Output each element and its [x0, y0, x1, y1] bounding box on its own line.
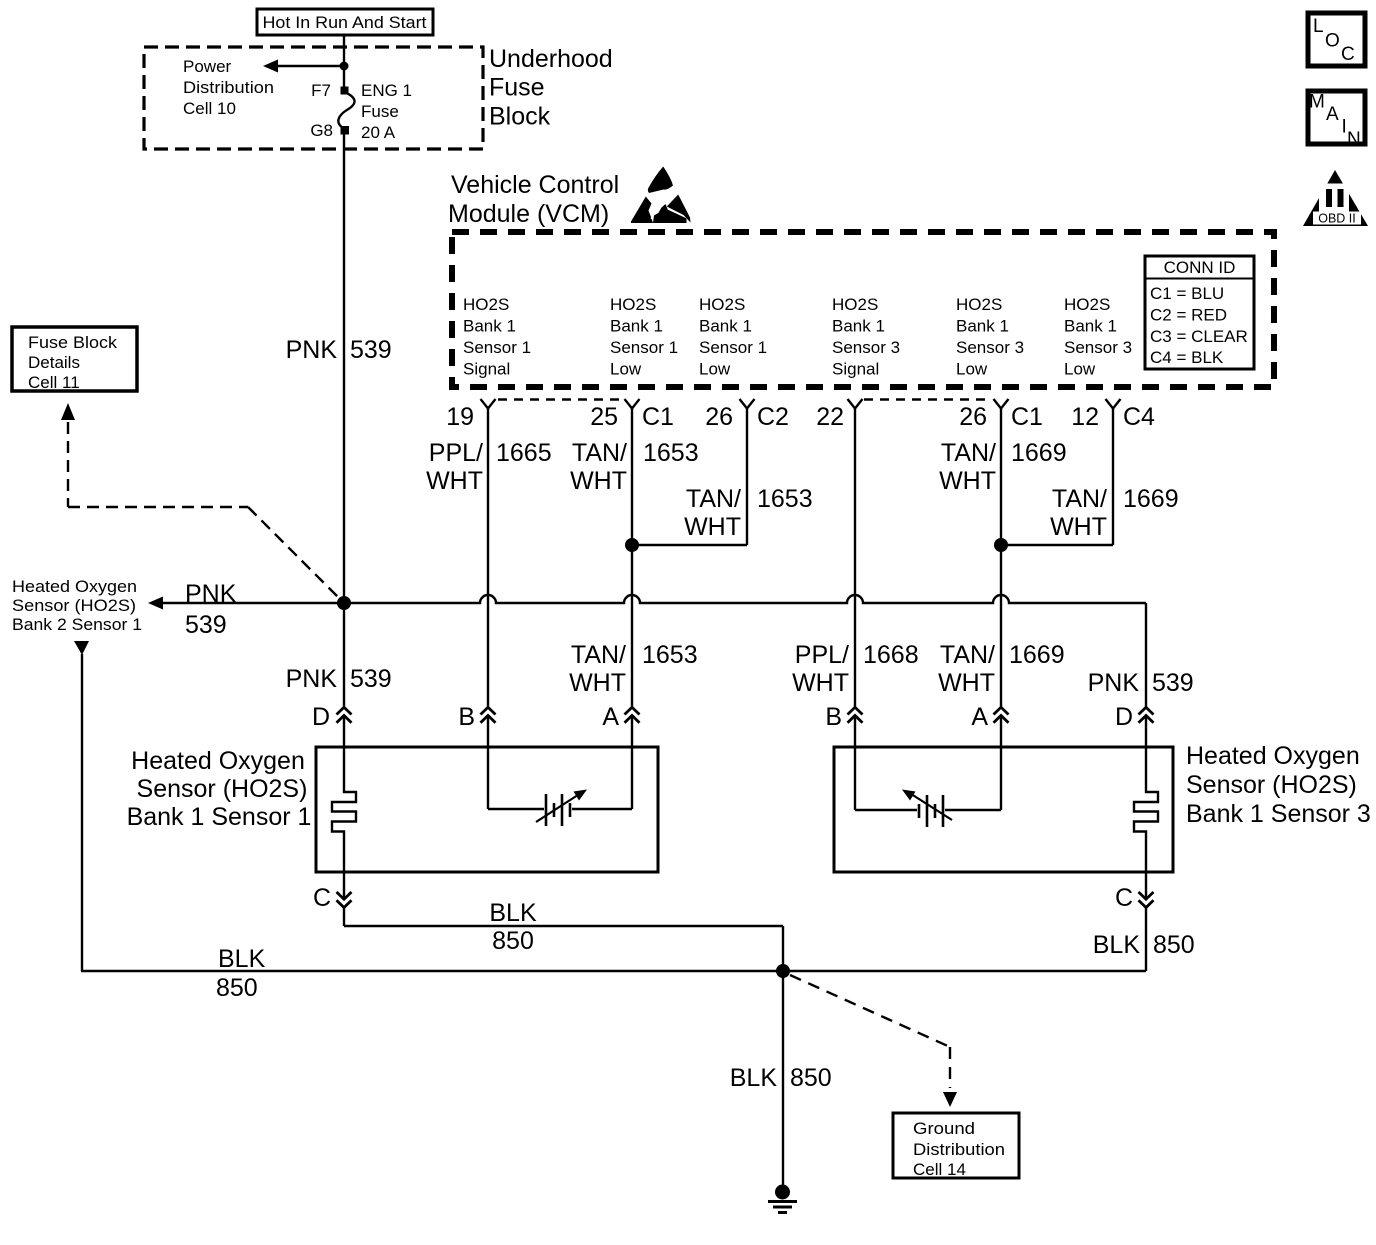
dashed reference arrow to Ground Distribution: [790, 975, 957, 1107]
label Heated Oxygen Sensor (HO2S) Bank 1 Sensor 1: [127, 747, 312, 831]
svg-text:A: A: [602, 703, 619, 731]
terminal G8: [341, 126, 350, 135]
sensing element sensor3 (variable): [855, 747, 1001, 827]
svg-text:Bank 1: Bank 1: [956, 317, 1009, 336]
svg-text:WHT: WHT: [1050, 513, 1107, 541]
svg-text:C1: C1: [1011, 403, 1043, 431]
svg-text:HO2S: HO2S: [1064, 295, 1110, 314]
svg-text:Sensor 3: Sensor 3: [832, 338, 900, 357]
svg-text:26: 26: [959, 403, 987, 431]
connector pin A symbol: [994, 707, 1009, 722]
off-page arrow to Bank 2 Sensor 1: [74, 641, 89, 655]
svg-text:Sensor 1: Sensor 1: [699, 338, 767, 357]
svg-text:Block: Block: [489, 103, 551, 131]
svg-text:Bank 1 Sensor 3: Bank 1 Sensor 3: [1186, 800, 1371, 828]
svg-text:539: 539: [185, 611, 227, 639]
svg-text:CONN ID: CONN ID: [1164, 258, 1236, 277]
svg-text:G8: G8: [310, 121, 333, 140]
svg-text:C2 = RED: C2 = RED: [1150, 306, 1227, 325]
label Heated Oxygen Sensor (HO2S) Bank 2 Sensor 1: [12, 577, 142, 634]
connector C sensor3: [1115, 872, 1154, 971]
svg-text:Low: Low: [699, 360, 731, 379]
VCM pin function label HO2S Bank 1 Sensor 1 Signal: [463, 295, 531, 379]
svg-text:C: C: [313, 884, 331, 912]
svg-text:Bank 1 Sensor 1: Bank 1 Sensor 1: [127, 803, 312, 831]
svg-text:Heated Oxygen: Heated Oxygen: [12, 577, 137, 596]
svg-text:B: B: [825, 703, 842, 731]
label PPL/WHT 1668 above sensor3 B: [792, 641, 919, 697]
svg-text:Low: Low: [610, 360, 642, 379]
svg-text:PNK: PNK: [286, 665, 338, 693]
svg-text:B: B: [458, 703, 475, 731]
svg-text:BLK: BLK: [218, 945, 266, 973]
wire PNK 539 to sensor1 D: [343, 603, 345, 708]
svg-text:A: A: [1326, 104, 1339, 125]
label BLK 850 sensor3 C: [1093, 931, 1195, 959]
label TAN/WHT 1653 above sensor1 A: [569, 641, 698, 697]
junction pin26C1/pin12 wires: [994, 538, 1008, 552]
svg-text:1669: 1669: [1009, 641, 1065, 669]
svg-text:Bank 2 Sensor 1: Bank 2 Sensor 1: [12, 615, 142, 634]
svg-text:Sensor (HO2S): Sensor (HO2S): [1186, 771, 1357, 799]
LOC legend box: [1308, 13, 1365, 66]
svg-text:12: 12: [1071, 403, 1099, 431]
Ground Distribution Cell 14 box: [893, 1113, 1019, 1179]
fuse ENG 1 Fuse 20 A: [338, 92, 354, 129]
svg-text:Vehicle Control: Vehicle Control: [451, 171, 619, 199]
svg-text:Bank 1: Bank 1: [610, 317, 663, 336]
svg-text:25: 25: [590, 403, 618, 431]
svg-text:1653: 1653: [757, 485, 813, 513]
svg-text:BLK: BLK: [489, 899, 537, 927]
terminal F7: [341, 87, 349, 95]
wire BLK 850 sensor1 C to junction: [344, 899, 783, 971]
hot-in-run box: [257, 9, 433, 35]
svg-text:D: D: [1115, 703, 1133, 731]
wire BLK 850 to ground: [782, 971, 784, 1186]
svg-text:Hot In Run And Start: Hot In Run And Start: [263, 13, 427, 32]
svg-text:26: 26: [705, 403, 733, 431]
wire TAN/WHT 1653 pin26 C2: [632, 409, 813, 546]
svg-text:C1 = BLU: C1 = BLU: [1150, 284, 1224, 303]
svg-text:850: 850: [1153, 931, 1195, 959]
svg-text:Sensor 1: Sensor 1: [463, 338, 531, 357]
svg-text:539: 539: [350, 665, 392, 693]
dashed reference arrow to Fuse Block Details: [61, 403, 341, 600]
wire TAN/WHT 1653 pin25 to sensor1 A: [631, 409, 633, 708]
svg-text:HO2S: HO2S: [699, 295, 745, 314]
heater element sensor3: [1134, 747, 1158, 872]
svg-text:Signal: Signal: [463, 360, 510, 379]
svg-text:PNK: PNK: [286, 336, 338, 364]
svg-text:1668: 1668: [863, 641, 919, 669]
svg-text:1653: 1653: [642, 641, 698, 669]
VCM dashed box: [452, 232, 1274, 387]
svg-text:850: 850: [216, 974, 258, 1002]
svg-text:Bank 1: Bank 1: [1064, 317, 1117, 336]
svg-text:850: 850: [492, 927, 534, 955]
ground symbol G107: [768, 1185, 797, 1213]
svg-text:Sensor (HO2S): Sensor (HO2S): [137, 775, 308, 803]
wire node to F7: [343, 66, 345, 90]
wire TAN/WHT 1669 pin26 C1 to sensor3 A: [1000, 409, 1002, 708]
svg-text:PPL/: PPL/: [429, 439, 483, 467]
svg-text:WHT: WHT: [426, 467, 483, 495]
svg-text:Bank 1: Bank 1: [699, 317, 752, 336]
svg-text:HO2S: HO2S: [463, 295, 509, 314]
svg-text:Signal: Signal: [832, 360, 879, 379]
svg-text:Heated Oxygen: Heated Oxygen: [131, 747, 305, 775]
arrow wire to Power Distribution: [263, 60, 344, 73]
svg-text:20 A: 20 A: [361, 123, 396, 142]
svg-text:850: 850: [790, 1064, 832, 1092]
svg-text:Bank 1: Bank 1: [832, 317, 885, 336]
pin 26 connector symbol: [994, 399, 1009, 409]
wire BLK 850 left branch down: [81, 654, 83, 971]
svg-text:Fuse: Fuse: [489, 74, 545, 102]
ESD sensitivity symbol: [631, 167, 691, 224]
connector pin D symbol: [337, 707, 352, 722]
svg-text:C: C: [1115, 884, 1133, 912]
svg-text:Cell 14: Cell 14: [913, 1160, 966, 1179]
label PNK 539 upper: [286, 336, 392, 364]
label Underhood Fuse Block: [489, 45, 613, 131]
svg-text:I: I: [1342, 117, 1347, 138]
svg-text:1669: 1669: [1123, 485, 1179, 513]
svg-text:C4 = BLK: C4 = BLK: [1150, 348, 1224, 367]
svg-text:1665: 1665: [496, 439, 552, 467]
svg-text:Distribution: Distribution: [913, 1140, 1005, 1159]
svg-text:C4: C4: [1123, 403, 1155, 431]
sensing element sensor1 (variable): [488, 747, 632, 826]
svg-text:19: 19: [446, 403, 474, 431]
VCM pin function label HO2S Bank 1 Sensor 3 Signal: [832, 295, 900, 379]
connector C sensor1: [313, 872, 352, 926]
svg-text:Distribution: Distribution: [183, 78, 274, 97]
heater element sensor1: [332, 747, 356, 872]
svg-text:22: 22: [816, 403, 844, 431]
node ground junction: [776, 964, 790, 978]
wire PPL/WHT 1668 pin22 to sensor3 B: [854, 409, 856, 708]
svg-text:TAN/: TAN/: [941, 439, 996, 467]
svg-text:HO2S: HO2S: [610, 295, 656, 314]
label PNK 539 at left arrow: [185, 580, 237, 639]
wire PNK 539 horizontal bus with hops: [161, 595, 1146, 603]
junction pin25/pin26 wires: [625, 538, 639, 552]
svg-text:Ground: Ground: [913, 1119, 975, 1138]
svg-text:Sensor (HO2S): Sensor (HO2S): [12, 596, 136, 615]
svg-text:Bank 1: Bank 1: [463, 317, 516, 336]
svg-text:WHT: WHT: [569, 669, 626, 697]
label Vehicle Control Module (VCM): [448, 171, 619, 228]
svg-text:TAN/: TAN/: [1052, 485, 1107, 513]
svg-text:WHT: WHT: [570, 467, 627, 495]
svg-text:OBD II: OBD II: [1318, 212, 1356, 226]
svg-text:M: M: [1309, 92, 1325, 113]
svg-text:Heated Oxygen: Heated Oxygen: [1186, 742, 1360, 770]
VCM pin function label HO2S Bank 1 Sensor 1 Low (pin 26): [699, 295, 767, 379]
svg-text:WHT: WHT: [792, 669, 849, 697]
OBD II symbol: [1303, 170, 1368, 226]
VCM pin function label HO2S Bank 1 Sensor 3 Low (pin 26): [956, 295, 1024, 379]
CONN ID table: [1145, 256, 1254, 369]
pin 19 connector symbol: [481, 399, 496, 409]
svg-text:Sensor 1: Sensor 1: [610, 338, 678, 357]
label Heated Oxygen Sensor (HO2S) Bank 1 Sensor 3: [1186, 742, 1371, 828]
svg-text:PNK: PNK: [1088, 669, 1140, 697]
node power feed junction: [340, 62, 349, 71]
svg-text:Cell 10: Cell 10: [183, 99, 236, 118]
wire from hot box to node: [343, 35, 345, 66]
svg-text:TAN/: TAN/: [940, 641, 995, 669]
connector pin B symbol: [481, 707, 496, 722]
label BLK 850 left bus: [216, 945, 266, 1002]
svg-text:Underhood: Underhood: [489, 45, 613, 73]
svg-text:TAN/: TAN/: [572, 439, 627, 467]
svg-text:C3 = CLEAR: C3 = CLEAR: [1150, 327, 1248, 346]
pin 26 connector symbol: [740, 399, 755, 409]
svg-text:HO2S: HO2S: [832, 295, 878, 314]
connector pin B symbol: [848, 707, 863, 722]
wire PNK 539 to sensor3 D: [1145, 603, 1147, 708]
svg-text:Details: Details: [28, 353, 80, 372]
svg-text:Power: Power: [183, 57, 232, 76]
svg-text:WHT: WHT: [939, 467, 996, 495]
svg-text:L: L: [1313, 16, 1324, 37]
wire BLK 850 main bottom bus: [81, 970, 1146, 972]
svg-text:N: N: [1347, 129, 1361, 150]
svg-text:Module (VCM): Module (VCM): [448, 200, 609, 228]
wire PNK 539 from fuse down to bus: [343, 131, 345, 603]
svg-text:F7: F7: [311, 81, 331, 100]
svg-text:A: A: [971, 703, 988, 731]
svg-text:Sensor 3: Sensor 3: [1064, 338, 1132, 357]
svg-text:Cell 11: Cell 11: [28, 373, 80, 392]
svg-text:1669: 1669: [1011, 439, 1067, 467]
svg-text:O: O: [1325, 31, 1340, 52]
label Power Distribution Cell 10: [183, 57, 274, 118]
svg-text:C: C: [1341, 44, 1355, 65]
connector pin A symbol: [625, 707, 640, 722]
svg-text:Low: Low: [1064, 360, 1096, 379]
wire PPL/WHT 1665 pin19 to sensor1 B: [487, 409, 489, 708]
svg-text:WHT: WHT: [684, 513, 741, 541]
svg-text:D: D: [312, 703, 330, 731]
svg-text:TAN/: TAN/: [571, 641, 626, 669]
svg-text:Fuse: Fuse: [361, 102, 399, 121]
node PNK bus junction: [337, 596, 351, 610]
svg-text:1653: 1653: [643, 439, 699, 467]
pin 12 connector symbol: [1106, 399, 1121, 409]
label TAN/WHT 1669 above sensor3 A: [938, 641, 1065, 697]
svg-text:C1: C1: [642, 403, 674, 431]
Fuse Block Details Cell 11 box: [12, 327, 137, 392]
underhood fuse block dashed box: [144, 47, 483, 149]
pin 22 connector symbol: [848, 399, 863, 409]
svg-text:HO2S: HO2S: [956, 295, 1002, 314]
svg-text:Sensor 3: Sensor 3: [956, 338, 1024, 357]
svg-text:539: 539: [350, 336, 392, 364]
svg-text:Low: Low: [956, 360, 988, 379]
VCM pin function label HO2S Bank 1 Sensor 3 Low (pin 12): [1064, 295, 1132, 379]
svg-text:539: 539: [1152, 669, 1194, 697]
pin 25 connector symbol: [625, 399, 640, 409]
svg-text:TAN/: TAN/: [686, 485, 741, 513]
PNK 539 bus arrowhead left: [148, 597, 163, 610]
wire TAN/WHT 1669 pin12 C4: [1001, 409, 1179, 546]
svg-text:BLK: BLK: [730, 1064, 778, 1092]
HO2S Bank 1 Sensor 3 box: [834, 747, 1173, 872]
svg-text:ENG 1: ENG 1: [361, 81, 412, 100]
svg-text:BLK: BLK: [1093, 931, 1141, 959]
VCM pin function label HO2S Bank 1 Sensor 1 Low (pin 25): [610, 295, 678, 379]
svg-text:Fuse Block: Fuse Block: [28, 333, 118, 352]
svg-text:PPL/: PPL/: [795, 641, 849, 669]
svg-text:WHT: WHT: [938, 669, 995, 697]
HO2S Bank 1 Sensor 1 box: [316, 747, 658, 872]
svg-text:C2: C2: [757, 403, 789, 431]
MAIN legend box: [1308, 91, 1365, 150]
connector link dashed 19-25: [498, 398, 622, 400]
connector pin D symbol: [1139, 707, 1154, 722]
connector link dashed 22-26: [864, 398, 991, 400]
